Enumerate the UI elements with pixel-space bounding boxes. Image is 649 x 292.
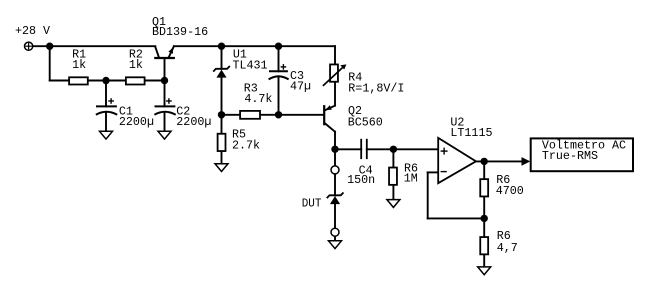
svg-text:TL431: TL431 xyxy=(233,58,268,72)
svg-text:1k: 1k xyxy=(72,58,86,72)
svg-text:BC560: BC560 xyxy=(348,116,383,130)
svg-text:1M: 1M xyxy=(404,172,418,186)
svg-text:BD139-16: BD139-16 xyxy=(152,25,208,39)
svg-text:4.7k: 4.7k xyxy=(244,92,272,106)
svg-text:LT1115: LT1115 xyxy=(450,126,492,140)
svg-text:R=1,8V/I: R=1,8V/I xyxy=(348,81,404,95)
svg-text:+28 V: +28 V xyxy=(15,24,50,38)
svg-text:4700: 4700 xyxy=(496,184,524,198)
svg-text:2200µ: 2200µ xyxy=(176,115,211,129)
svg-text:True-RMS: True-RMS xyxy=(542,149,598,163)
svg-text:1k: 1k xyxy=(129,58,143,72)
svg-text:47µ: 47µ xyxy=(290,79,311,93)
svg-text:150n: 150n xyxy=(347,173,375,187)
svg-text:DUT: DUT xyxy=(302,197,322,211)
svg-text:2200µ: 2200µ xyxy=(119,115,154,129)
svg-text:2.7k: 2.7k xyxy=(232,139,260,153)
svg-text:4,7: 4,7 xyxy=(497,241,518,255)
